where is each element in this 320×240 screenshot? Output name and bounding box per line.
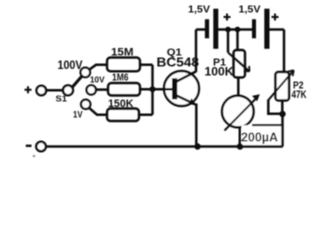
svg-text:200µA: 200µA [241, 130, 278, 144]
svg-text:1V: 1V [73, 110, 83, 121]
svg-text:1M6: 1M6 [112, 73, 129, 84]
svg-text:S1: S1 [56, 93, 68, 103]
svg-text:1,5V: 1,5V [188, 4, 210, 15]
svg-text:150K: 150K [108, 98, 134, 110]
svg-text:15M: 15M [111, 46, 134, 58]
svg-text:47K: 47K [292, 89, 307, 101]
svg-text:1,5V: 1,5V [239, 4, 261, 15]
svg-text:10V: 10V [90, 76, 105, 85]
svg-text:100K: 100K [205, 67, 235, 79]
svg-text:100V: 100V [58, 60, 83, 72]
svg-text:BC548: BC548 [157, 54, 200, 69]
